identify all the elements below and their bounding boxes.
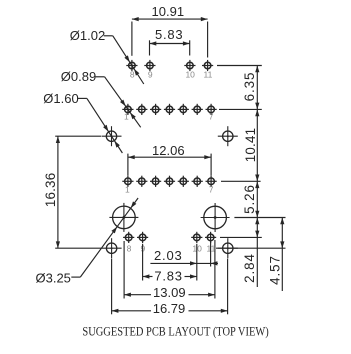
svg-text:16.79: 16.79 (153, 301, 186, 316)
svg-text:12.06: 12.06 (152, 143, 185, 158)
svg-text:4.57: 4.57 (267, 255, 282, 285)
svg-text:9: 9 (148, 70, 153, 80)
svg-text:Ø1.02: Ø1.02 (70, 28, 105, 43)
svg-text:Ø0.89: Ø0.89 (61, 69, 96, 84)
svg-text:2.03: 2.03 (154, 248, 183, 263)
svg-text:7: 7 (209, 112, 214, 122)
svg-text:Ø3.25: Ø3.25 (35, 271, 70, 286)
svg-text:7: 7 (209, 185, 214, 195)
svg-text:10: 10 (185, 70, 195, 80)
svg-text:13.09: 13.09 (153, 285, 186, 300)
svg-text:6.35: 6.35 (242, 72, 257, 102)
svg-text:16.36: 16.36 (43, 173, 58, 208)
svg-text:8: 8 (127, 244, 132, 254)
svg-text:10.91: 10.91 (152, 4, 185, 19)
svg-text:2.84: 2.84 (242, 253, 257, 283)
svg-text:5.83: 5.83 (155, 27, 184, 42)
svg-text:1: 1 (124, 112, 129, 122)
svg-text:7.83: 7.83 (154, 269, 183, 284)
svg-text:8: 8 (130, 70, 135, 80)
svg-text:11: 11 (203, 70, 212, 80)
svg-text:SUGGESTED PCB LAYOUT (TOP VIEW: SUGGESTED PCB LAYOUT (TOP VIEW) (82, 324, 268, 338)
svg-text:Ø1.60: Ø1.60 (43, 91, 78, 106)
svg-text:5.26: 5.26 (242, 184, 257, 214)
svg-text:1: 1 (125, 185, 130, 195)
svg-text:10.41: 10.41 (243, 128, 258, 163)
